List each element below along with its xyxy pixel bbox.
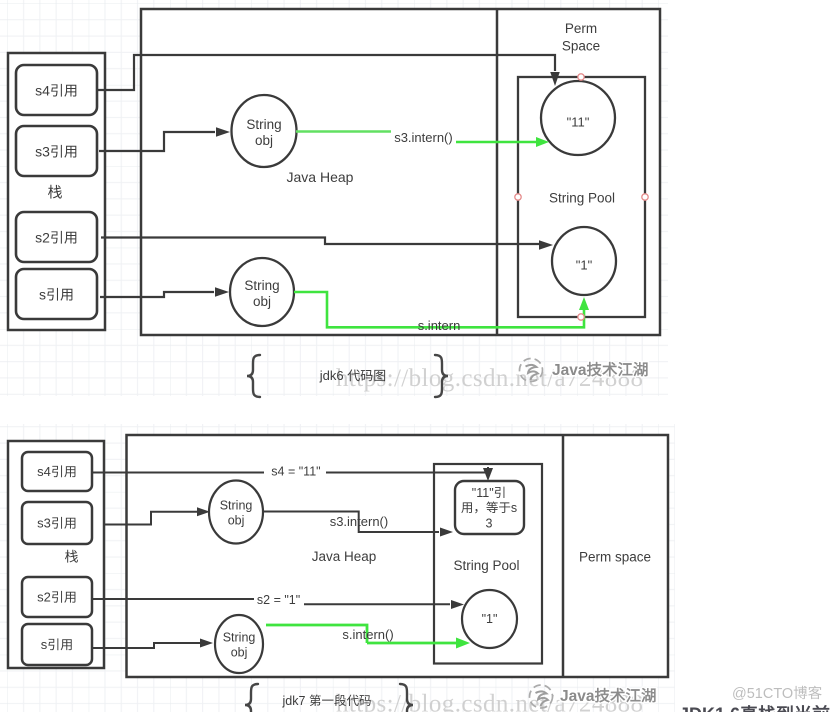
arrowhead into "1" circle (bottom) bbox=[451, 600, 464, 609]
svg-text:s2: s2 bbox=[37, 590, 51, 605]
selection handle bottom of pool bbox=[578, 314, 584, 320]
svg-text:Java Heap: Java Heap bbox=[287, 169, 354, 185]
grid background top image bbox=[0, 0, 668, 396]
svg-text:Space: Space bbox=[562, 38, 600, 53]
arrowhead into "1" circle (top) bbox=[539, 240, 553, 250]
svg-text:obj: obj bbox=[231, 646, 248, 660]
svg-text:Java: Java bbox=[560, 688, 595, 705]
svg-text:s4: s4 bbox=[37, 464, 51, 479]
svg-text:s3.intern(): s3.intern() bbox=[394, 130, 453, 145]
svg-text:jdk6: jdk6 bbox=[319, 368, 344, 383]
s4 = "11" label (bottom) bbox=[264, 465, 326, 478]
String obj circle 1 (top) bbox=[232, 95, 297, 167]
s reference box (bottom) bbox=[22, 624, 92, 665]
Java Heap container box (bottom) bbox=[127, 435, 669, 677]
Java Heap container box (top) bbox=[141, 9, 660, 335]
String obj circle 1 (bottom) bbox=[209, 481, 263, 544]
svg-text:obj: obj bbox=[253, 294, 271, 309]
svg-text:s2 = "1": s2 = "1" bbox=[257, 593, 300, 607]
green wire s.intern segment A (bottom) bbox=[266, 625, 367, 643]
wire s4 to "11" pool object (top) bbox=[97, 55, 555, 90]
Java tech logo icon (top) bbox=[520, 359, 543, 382]
svg-text:s2: s2 bbox=[35, 230, 50, 246]
wire s to String obj 2 (bottom) bbox=[92, 643, 200, 648]
arrowhead into String obj 2 (bottom) bbox=[200, 639, 213, 648]
s3 reference box (bottom) bbox=[22, 502, 92, 544]
green arrowhead up into "1" (top) bbox=[579, 297, 589, 310]
s reference box (top) bbox=[16, 269, 97, 319]
svg-text:Perm space: Perm space bbox=[579, 549, 651, 564]
s2 reference box (bottom) bbox=[22, 577, 92, 617]
svg-text:String Pool: String Pool bbox=[549, 190, 615, 205]
svg-text:Java Heap: Java Heap bbox=[312, 549, 377, 564]
arrowhead down into "11" circle (top) bbox=[550, 72, 560, 86]
grid background bottom image bbox=[0, 424, 675, 712]
svg-text:s: s bbox=[511, 501, 517, 515]
green arrowhead into "1" (bottom) bbox=[456, 638, 470, 649]
left curly brace (top caption) bbox=[247, 355, 260, 397]
svg-text:String: String bbox=[246, 117, 281, 132]
String Pool box (bottom) bbox=[434, 464, 542, 664]
svg-text:s.intern(): s.intern() bbox=[342, 627, 393, 642]
svg-text:JDK1.6: JDK1.6 bbox=[679, 705, 740, 712]
svg-text:"1": "1" bbox=[576, 258, 593, 273]
selection handle right of pool bbox=[642, 194, 648, 200]
green wire s3.intern segment A (top) bbox=[296, 130, 391, 133]
right curly brace (bottom caption) bbox=[400, 684, 413, 712]
s4 reference box (bottom) bbox=[22, 452, 92, 491]
svg-text:s4: s4 bbox=[35, 83, 50, 99]
svg-text:3: 3 bbox=[486, 517, 493, 531]
green wire s3.intern segment B with arrow (top) bbox=[456, 141, 536, 144]
left curly brace (bottom caption) bbox=[245, 684, 258, 712]
arrowhead into "11" box left (bottom) bbox=[440, 528, 453, 537]
svg-text:"11": "11" bbox=[472, 486, 494, 500]
svg-text:s3: s3 bbox=[35, 144, 50, 160]
wire s to String obj 2 (top) bbox=[100, 292, 214, 297]
svg-text:String: String bbox=[244, 278, 279, 293]
svg-text:jdk7: jdk7 bbox=[282, 694, 306, 708]
s2 = "1" label (bottom) bbox=[254, 593, 304, 606]
svg-text:s: s bbox=[41, 637, 48, 652]
s3 reference box (top) bbox=[16, 126, 97, 176]
svg-text:s: s bbox=[39, 287, 46, 303]
green wire s.intern segment B (bottom) bbox=[367, 642, 456, 645]
svg-text:"1": "1" bbox=[482, 612, 498, 626]
right curly brace (top caption) bbox=[435, 355, 448, 397]
Perm space divider (bottom) bbox=[562, 435, 565, 677]
svg-text:"11": "11" bbox=[567, 115, 590, 130]
s2 reference box (top) bbox=[16, 212, 97, 262]
String Pool box (top) bbox=[518, 77, 645, 317]
Java tech logo icon (bottom) bbox=[530, 685, 553, 708]
svg-text:s.intern: s.intern bbox=[418, 318, 461, 333]
wire s3 to String obj (bottom) bbox=[104, 512, 198, 525]
green wire s.intern (top) bbox=[294, 292, 584, 327]
Perm Space divider line (top) bbox=[496, 9, 499, 335]
stack label (bottom) bbox=[65, 550, 78, 563]
wire s2 to "1" pool object (top) bbox=[101, 238, 539, 245]
wire s3 to String obj (top) bbox=[99, 132, 215, 151]
svg-text:s3: s3 bbox=[37, 516, 51, 531]
svg-text:obj: obj bbox=[255, 133, 273, 148]
svg-text:Java: Java bbox=[552, 362, 587, 379]
"11" pool circle (top) bbox=[541, 81, 615, 155]
selection handle top of pool bbox=[578, 74, 584, 80]
svg-text:Perm: Perm bbox=[565, 21, 597, 36]
String obj circle 2 (top) bbox=[230, 258, 294, 326]
arrowhead into String obj 2 (top) bbox=[215, 287, 229, 297]
stack container box (top) bbox=[8, 53, 105, 330]
wire s2 (bottom) bbox=[92, 599, 450, 604]
svg-text:String Pool: String Pool bbox=[454, 558, 520, 573]
s4 reference box (top) bbox=[16, 65, 97, 115]
stack label (top) bbox=[48, 185, 62, 199]
svg-text:String: String bbox=[223, 631, 256, 645]
wire s4 (bottom) bbox=[92, 467, 488, 473]
"1" pool circle (top) bbox=[552, 227, 616, 295]
svg-text:@51CTO: @51CTO bbox=[732, 686, 793, 702]
arrowhead into String obj 1 (bottom) bbox=[197, 507, 210, 516]
arrowhead down into "11" box (bottom) bbox=[483, 468, 493, 481]
svg-text:String: String bbox=[220, 499, 253, 513]
String obj circle 2 (bottom) bbox=[215, 615, 263, 673]
svg-text:s3.intern(): s3.intern() bbox=[330, 514, 389, 529]
arrowhead into String obj 1 (top) bbox=[216, 127, 230, 137]
"1" pool circle (bottom) bbox=[462, 590, 517, 648]
stack container box (bottom) bbox=[8, 441, 104, 668]
"11" reference box (bottom) bbox=[455, 481, 524, 534]
wire String obj 1 to pool box (bottom) bbox=[264, 512, 439, 533]
svg-text:s4 = "11": s4 = "11" bbox=[271, 465, 320, 479]
svg-text:obj: obj bbox=[228, 514, 245, 528]
selection handle left of pool bbox=[515, 194, 521, 200]
